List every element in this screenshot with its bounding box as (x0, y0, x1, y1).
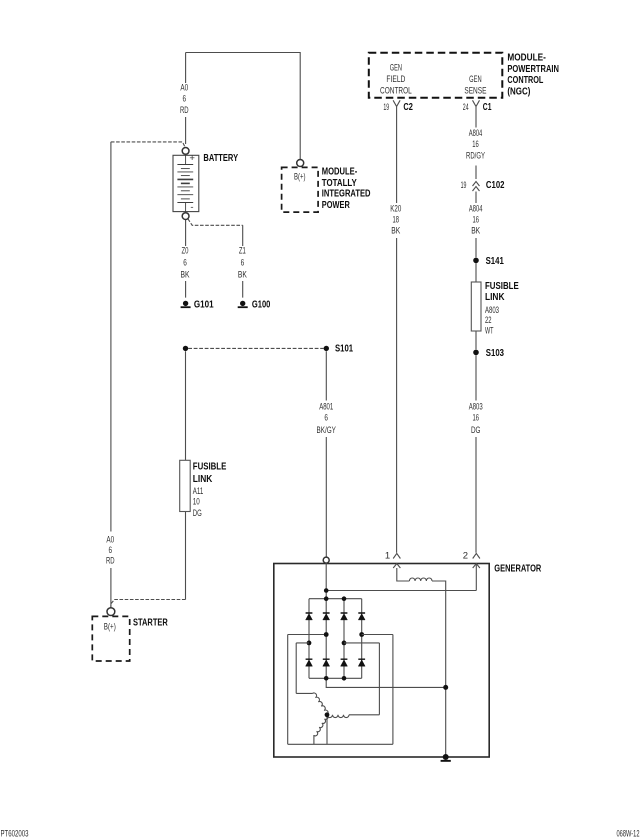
svg-text:INTEGRATED: INTEGRATED (322, 188, 371, 199)
svg-text:C102: C102 (486, 180, 505, 191)
svg-text:6: 6 (109, 545, 113, 556)
svg-text:S103: S103 (486, 348, 505, 359)
svg-text:MODULE-: MODULE- (507, 53, 546, 64)
svg-text:6: 6 (241, 258, 245, 269)
svg-text:K20: K20 (390, 204, 401, 215)
svg-text:GEN: GEN (390, 63, 402, 74)
svg-text:24: 24 (463, 102, 469, 113)
svg-text:A801: A801 (319, 402, 333, 413)
svg-text:BK: BK (181, 270, 190, 281)
svg-text:BK: BK (238, 270, 247, 281)
svg-text:(NGC): (NGC) (507, 86, 530, 97)
svg-text:RD: RD (106, 556, 115, 567)
svg-text:2: 2 (463, 551, 468, 562)
svg-text:S101: S101 (335, 344, 353, 355)
svg-text:068W-12: 068W-12 (617, 828, 640, 839)
svg-text:18: 18 (393, 215, 400, 226)
svg-text:B(+): B(+) (104, 621, 116, 632)
svg-text:B(+): B(+) (294, 172, 306, 183)
svg-text:WT: WT (485, 326, 494, 337)
svg-text:6: 6 (324, 413, 328, 424)
svg-text:FUSIBLE: FUSIBLE (485, 281, 519, 292)
svg-text:S141: S141 (486, 256, 505, 267)
svg-text:DG: DG (193, 508, 202, 519)
svg-text:6: 6 (183, 258, 187, 269)
svg-text:1: 1 (385, 551, 390, 562)
svg-text:-: - (190, 202, 193, 213)
svg-text:16: 16 (472, 413, 479, 424)
svg-text:FUSIBLE: FUSIBLE (193, 462, 227, 473)
svg-text:6: 6 (183, 94, 187, 105)
svg-text:PT602003: PT602003 (1, 828, 29, 839)
svg-text:RD/GY: RD/GY (466, 151, 485, 162)
svg-text:MODULE-: MODULE- (322, 167, 358, 178)
svg-text:SENSE: SENSE (464, 85, 486, 96)
svg-text:RD: RD (180, 105, 189, 116)
svg-text:GEN: GEN (469, 74, 482, 85)
svg-text:19: 19 (383, 102, 389, 113)
svg-text:+: + (189, 153, 195, 164)
svg-text:POWER: POWER (322, 200, 351, 211)
svg-text:A803: A803 (469, 402, 483, 413)
svg-text:LINK: LINK (485, 292, 505, 303)
svg-text:19: 19 (461, 180, 467, 191)
svg-text:Z0: Z0 (182, 246, 189, 257)
svg-text:A804: A804 (469, 128, 483, 139)
svg-text:DG: DG (471, 425, 481, 436)
svg-text:LINK: LINK (193, 474, 213, 485)
svg-text:BK: BK (391, 226, 400, 237)
svg-text:BK: BK (471, 226, 480, 237)
svg-text:16: 16 (472, 215, 479, 226)
svg-text:STARTER: STARTER (133, 617, 168, 628)
svg-text:A804: A804 (469, 204, 483, 215)
svg-text:FIELD: FIELD (386, 74, 405, 85)
svg-text:POWERTRAIN: POWERTRAIN (507, 64, 559, 75)
svg-text:G101: G101 (194, 299, 214, 310)
svg-text:BATTERY: BATTERY (203, 153, 238, 164)
svg-text:C1: C1 (483, 102, 492, 113)
svg-text:TOTALLY: TOTALLY (322, 178, 357, 189)
svg-text:16: 16 (472, 139, 479, 150)
svg-text:CONTROL: CONTROL (380, 85, 412, 96)
svg-text:Z1: Z1 (239, 246, 246, 257)
svg-text:A11: A11 (193, 486, 204, 497)
svg-text:G100: G100 (252, 299, 271, 310)
svg-text:BK/GY: BK/GY (316, 425, 336, 436)
svg-text:C2: C2 (403, 102, 413, 113)
svg-text:10: 10 (193, 497, 200, 508)
svg-text:A0: A0 (180, 82, 188, 93)
svg-text:CONTROL: CONTROL (507, 75, 543, 86)
svg-text:GENERATOR: GENERATOR (494, 563, 542, 574)
